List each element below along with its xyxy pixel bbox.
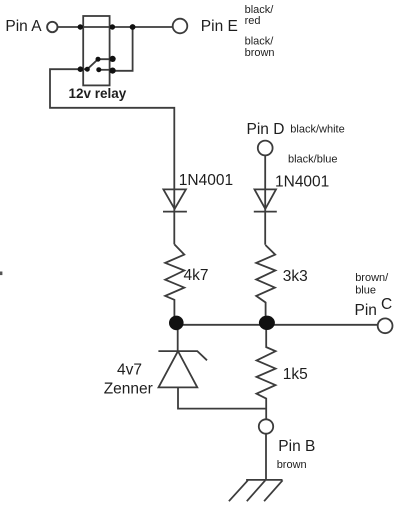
svg-text:Pin A: Pin A bbox=[5, 18, 42, 35]
svg-text:4v7: 4v7 bbox=[117, 361, 142, 378]
svg-text:Zenner: Zenner bbox=[104, 380, 153, 397]
svg-text:3k3: 3k3 bbox=[283, 268, 308, 285]
svg-text:red: red bbox=[245, 15, 261, 27]
svg-text:Pin: Pin bbox=[355, 302, 377, 319]
svg-text:Pin E: Pin E bbox=[201, 18, 238, 35]
svg-text:black/: black/ bbox=[245, 36, 275, 48]
svg-text:brown/: brown/ bbox=[355, 272, 389, 284]
svg-text:blue: blue bbox=[355, 284, 376, 296]
svg-text:black/: black/ bbox=[245, 4, 275, 16]
svg-text:Pin D: Pin D bbox=[247, 121, 285, 138]
svg-text:1k5: 1k5 bbox=[283, 366, 308, 383]
svg-text:black/blue: black/blue bbox=[288, 154, 338, 166]
svg-text:12v relay: 12v relay bbox=[69, 86, 127, 101]
svg-text:brown: brown bbox=[245, 47, 275, 59]
svg-text:1N4001: 1N4001 bbox=[179, 172, 233, 189]
svg-text:black/white: black/white bbox=[290, 124, 344, 136]
svg-text:C: C bbox=[381, 296, 392, 313]
svg-text:4k7: 4k7 bbox=[184, 267, 209, 284]
svg-text:Pin B: Pin B bbox=[278, 438, 315, 455]
svg-text:1N4001: 1N4001 bbox=[275, 174, 329, 191]
svg-text:brown: brown bbox=[277, 459, 307, 471]
